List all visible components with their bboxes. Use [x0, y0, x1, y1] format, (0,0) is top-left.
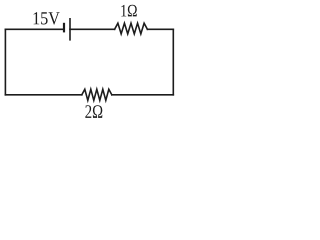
resistor R1 zigzag: [115, 23, 148, 34]
wire: battery to resistor R1: [70, 28, 115, 30]
label 15V (battery value): [34, 12, 60, 24]
wire: R1 to top-right corner: [147, 28, 173, 30]
wire: bottom-left segment from R2 to left corner: [5, 94, 81, 96]
battery B1 short plate (negative): [63, 24, 65, 31]
label 2Ω (resistor R2 value): [85, 105, 102, 118]
wire: top-left segment from left corner to battery: [5, 28, 63, 30]
battery B1 long plate (positive): [69, 19, 71, 40]
wire: left side vertical: [4, 29, 6, 95]
label 1Ω (resistor R1 value): [121, 5, 136, 17]
wire: right side vertical: [172, 29, 174, 95]
wire: bottom-right segment to resistor R2: [112, 94, 174, 96]
resistor R2 zigzag: [82, 89, 112, 100]
